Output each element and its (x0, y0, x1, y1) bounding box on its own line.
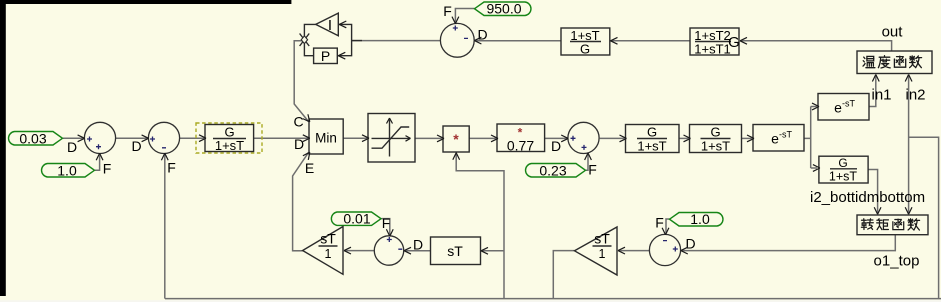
svg-text:in1: in1 (871, 87, 891, 104)
svg-text:sT: sT (594, 231, 610, 247)
source label 0.03 (9, 130, 63, 146)
wire: PI junction to Min C (294, 41, 308, 122)
svg-text:D: D (294, 136, 304, 152)
wire: S3 to G/(1+sT) A (600, 137, 625, 139)
wire: 0.03 to S1 (63, 137, 83, 139)
svg-text:D: D (685, 236, 695, 252)
wire: bottom G/(1+sT) to torque in (868, 170, 877, 214)
temperature function block (857, 51, 932, 82)
wire: multiply/sT feedback vertical (456, 154, 504, 299)
wire: bottom feedback bus (165, 298, 941, 300)
svg-text:950.0: 950.0 (486, 1, 521, 17)
wire: multiplier to 0.77 (469, 137, 496, 139)
wire: Min to limiter (343, 137, 367, 139)
block 1+sT/G (561, 28, 618, 57)
block G/(1+sT) B (684, 125, 742, 154)
wire: limiter to multiplier (415, 137, 442, 139)
wire: S6 to right triangle (619, 250, 650, 252)
svg-text:F: F (382, 215, 391, 231)
svg-text:D: D (67, 139, 77, 155)
svg-text:out: out (882, 24, 904, 41)
svg-text:1.0: 1.0 (690, 211, 710, 227)
wire: S1 to S2 (116, 137, 147, 139)
summer S6 (649, 228, 687, 266)
wire: 1.0 to S6 top (666, 219, 670, 234)
block e-sT upper (812, 94, 869, 121)
svg-text:C: C (293, 114, 303, 130)
wire: G/(1+sT) to Min D (254, 137, 308, 139)
block (1+sT2)/(1+sT1) with gain G (690, 28, 747, 57)
svg-text:F: F (443, 3, 452, 19)
wire: 0.23 to S3 bottom (586, 155, 588, 171)
wire: o1_top to S6 D (682, 235, 895, 251)
wire: S2 F feedback vertical (164, 155, 166, 299)
svg-text:G: G (647, 125, 657, 140)
wire: sT box to S5 D (405, 250, 430, 252)
svg-text:1.0: 1.0 (57, 162, 77, 178)
block sT (431, 237, 489, 265)
svg-text:e: e (771, 131, 779, 147)
wire: Min E from lower loop (293, 153, 309, 251)
summer S5 (374, 229, 411, 265)
wire: top e-sT to in1 (869, 76, 876, 107)
svg-text:G: G (728, 34, 740, 51)
svg-text:E: E (305, 160, 314, 176)
right derivative triangle sT/1 (575, 227, 626, 275)
svg-text:-sT: -sT (779, 130, 792, 140)
block limiter (362, 114, 415, 163)
svg-text:G: G (838, 156, 847, 170)
svg-text:1: 1 (599, 247, 606, 261)
wire: G/(1+sT) B to e-sT (742, 137, 752, 139)
wire: 1.0 to S1 bottom (95, 155, 100, 170)
svg-text:-sT: -sT (842, 99, 855, 109)
svg-text:1+sT: 1+sT (570, 28, 599, 43)
wire: 0.77 to S3 (545, 137, 567, 139)
svg-text:0.23: 0.23 (539, 162, 566, 178)
svg-text:F: F (588, 162, 597, 178)
svg-text:G: G (710, 125, 720, 140)
block G/(1+sT) lower right (813, 156, 868, 184)
wire: S4 to PI input (352, 40, 441, 42)
top black bar (0, 0, 291, 4)
svg-text:1+sT1: 1+sT1 (694, 42, 731, 57)
svg-text:1+sT: 1+sT (215, 138, 244, 153)
wire: temperature out to 1+sT2 block (741, 41, 892, 51)
svg-text:Min: Min (315, 131, 337, 146)
svg-text:D: D (551, 138, 561, 154)
source label 0.01 (331, 211, 381, 227)
svg-text:e: e (834, 100, 842, 116)
PI controller wires (304, 21, 362, 59)
svg-text:1: 1 (325, 247, 332, 261)
svg-text:1+sT: 1+sT (637, 139, 666, 154)
wire: S2 to G/(1+sT) (180, 137, 204, 139)
wire: 0.01 to S5 top (382, 219, 390, 235)
wire: 1+sT2 block to 1+sT block (611, 40, 690, 42)
svg-text:0.01: 0.01 (343, 211, 370, 227)
wire: sT box input tap (482, 250, 504, 252)
svg-text:sT: sT (447, 243, 463, 259)
svg-text:D: D (477, 27, 487, 43)
summer S1 (78, 122, 116, 160)
block gain 0.77 (491, 124, 545, 154)
svg-text:1+sT: 1+sT (701, 139, 730, 154)
svg-text:D: D (413, 237, 423, 253)
svg-text:o1_top: o1_top (874, 253, 920, 270)
svg-text:i2_bottidmbottom: i2_bottidmbottom (810, 189, 925, 206)
svg-text:G: G (580, 42, 590, 57)
left black bar (0, 0, 6, 296)
svg-text:in2: in2 (905, 87, 925, 104)
block Min (303, 114, 344, 160)
block G/(1+sT) A (620, 125, 680, 154)
block G/(1+sT) first (199, 125, 254, 154)
PI branch X junction (300, 34, 310, 47)
summer S4 (440, 17, 481, 58)
svg-text:0.77: 0.77 (507, 138, 534, 154)
svg-text:*: * (453, 131, 459, 147)
wire: 950.0 to S4 top (455, 9, 474, 23)
PI controller: P box (314, 48, 338, 64)
dashed highlight box (196, 123, 262, 153)
svg-text:F: F (167, 160, 176, 176)
summer S2 (142, 122, 180, 160)
left derivative triangle sT/1 (303, 227, 351, 275)
svg-text:0.03: 0.03 (19, 130, 46, 146)
summer S3 (561, 122, 599, 160)
wire: right triangle output to bus (553, 251, 574, 299)
source label 0.23 (526, 162, 586, 178)
svg-text:I: I (328, 17, 332, 34)
PI controller: I integrator triangle (316, 13, 339, 36)
torque function block (857, 207, 928, 235)
svg-text:D: D (131, 138, 141, 154)
wire: right edge feedback vertical (909, 137, 939, 298)
wire: e-sT output branch (804, 107, 817, 169)
svg-text:P: P (321, 48, 330, 64)
block multiplier (437, 126, 469, 160)
svg-text:1+sT: 1+sT (829, 170, 858, 184)
wire: left triangle output to Min E loop (293, 250, 303, 252)
svg-text:sT: sT (320, 231, 336, 247)
wire: in2 / torque input vertical (908, 75, 910, 214)
wire: 1+sT block to S4 (476, 40, 561, 42)
svg-text:F: F (103, 161, 112, 177)
source label 1.0 (right) (670, 211, 723, 227)
source label 1.0 (left) (42, 162, 95, 178)
wire: G/(1+sT) A to B (679, 137, 688, 139)
block e-sT main (747, 125, 804, 152)
svg-text:1+sT2: 1+sT2 (694, 28, 731, 43)
source label 950.0 (475, 1, 531, 17)
bottom white strip (0, 300, 941, 302)
wire: S5 to left triangle (345, 250, 375, 252)
